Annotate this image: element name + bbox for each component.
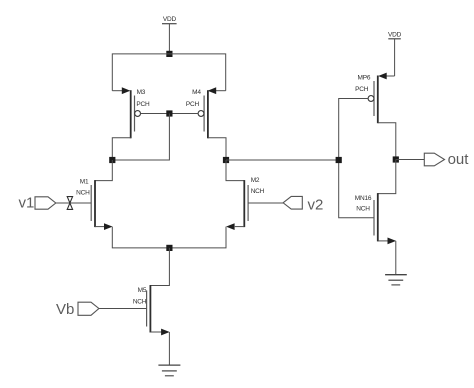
wire top rail [112,54,225,91]
svg-text:M4: M4 [192,89,201,96]
transistor M5 (NCH) [99,248,170,336]
svg-text:NCH: NCH [133,298,147,305]
node J2 gate junction [166,110,172,116]
power VDD symbol (second stage) [388,32,402,39]
wire mirror feedback (gate to M3 drain) [112,114,169,161]
hourglass marker on v1 wire [67,197,72,210]
power VDD symbol (first stage) [162,16,177,24]
wire MN16 source to ground [395,241,397,275]
svg-text:M2: M2 [251,177,260,184]
transistor MN16 (NCH) [355,160,396,245]
wire gate bus (stage1 out to MP6/MN16 gates) [339,99,374,218]
node J5 tail junction [166,245,172,251]
port Vb [56,301,99,318]
wire VDD stem to top rail [168,24,170,54]
port out [424,151,469,168]
node J3 M3 drain junction [109,157,115,163]
svg-text:VDD: VDD [388,32,402,39]
transistor M4 (PCH) [186,87,226,160]
wire tail node [112,227,226,248]
svg-text:VDD: VDD [163,16,177,23]
transistor M2 (NCH) [226,160,283,230]
ground (output stage) [385,275,407,285]
port v1 [19,195,56,212]
ground (tail) [158,365,180,376]
transistor M3 (PCH) [112,87,150,160]
svg-text:NCH: NCH [76,189,90,196]
node J1 top rail junction [166,51,172,57]
svg-text:v2: v2 [308,197,324,214]
node J4 M4 drain junction [223,157,229,163]
wire M5 source to ground [168,332,170,365]
svg-text:PCH: PCH [355,86,369,93]
wire VDD2 stem [394,39,396,76]
transistor MP6 (PCH) [355,73,396,160]
svg-text:v1: v1 [19,195,35,212]
transistor M1 (NCH) [56,160,113,230]
port v2 [283,196,323,213]
node J7 output junction [393,156,399,162]
svg-text:M1: M1 [80,178,89,185]
svg-text:MN16: MN16 [355,195,372,202]
wire gate link M3-M4 [141,113,199,115]
svg-text:PCH: PCH [136,101,150,108]
wire first stage output [226,159,339,161]
svg-text:MP6: MP6 [358,74,371,81]
svg-text:NCH: NCH [251,188,265,195]
svg-text:Vb: Vb [56,301,74,318]
node J6 gate bus junction [336,157,342,163]
svg-text:PCH: PCH [186,101,200,108]
svg-text:M3: M3 [137,89,146,96]
svg-text:M5: M5 [138,287,147,294]
wire to out port [396,159,425,161]
svg-text:NCH: NCH [356,206,370,213]
svg-text:out: out [448,151,470,168]
